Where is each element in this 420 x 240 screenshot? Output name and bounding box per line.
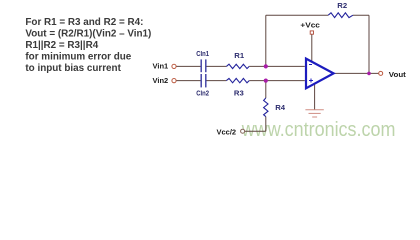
svg-text:for minimum error due: for minimum error due <box>25 52 131 63</box>
svg-text:R1: R1 <box>234 51 245 60</box>
svg-text:Vout = (R2/R1)(Vin2 – Vin1): Vout = (R2/R1)(Vin2 – Vin1) <box>25 29 151 40</box>
svg-text:+Vcc: +Vcc <box>300 20 320 29</box>
svg-text:CIn1: CIn1 <box>196 49 209 58</box>
svg-text:Vout: Vout <box>389 70 407 79</box>
svg-text:R4: R4 <box>275 103 286 112</box>
svg-text:www.cntronics.com: www.cntronics.com <box>241 119 395 141</box>
svg-text:R3: R3 <box>234 89 244 98</box>
svg-text:Vin1: Vin1 <box>153 62 169 71</box>
svg-text:to input bias current: to input bias current <box>25 63 121 74</box>
svg-text:Vin2: Vin2 <box>153 76 169 85</box>
svg-text:Vcc/2: Vcc/2 <box>217 127 237 136</box>
svg-text:R1||R2 = R3||R4: R1||R2 = R3||R4 <box>25 40 98 51</box>
svg-text:R2: R2 <box>337 1 347 10</box>
svg-text:CIn2: CIn2 <box>196 88 209 97</box>
svg-text:For R1 = R3 and R2 = R4:: For R1 = R3 and R2 = R4: <box>25 17 143 28</box>
